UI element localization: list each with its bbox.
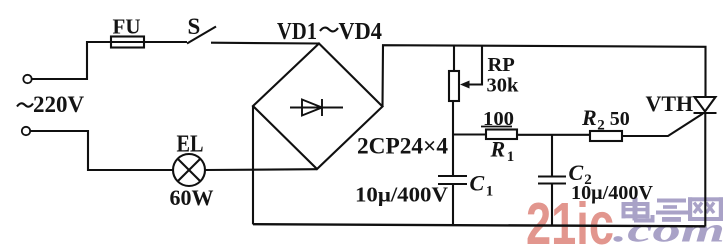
svg-text:S: S — [188, 14, 201, 39]
svg-text:FU: FU — [113, 15, 141, 39]
svg-text:VD4: VD4 — [339, 19, 383, 45]
wire R1 to R2 — [517, 134, 590, 136]
thyristor VTH — [694, 97, 717, 226]
label tilde — [320, 28, 338, 32]
node wire RP to R1 — [453, 133, 486, 135]
svg-text:30k: 30k — [487, 75, 520, 97]
svg-text:2CP24×4: 2CP24×4 — [357, 134, 449, 159]
RP wiper arrow — [460, 45, 482, 89]
svg-text:RP: RP — [488, 54, 515, 76]
svg-text:.com: .com — [613, 211, 725, 245]
bottom rail — [253, 224, 706, 226]
svg-text:VTH: VTH — [646, 91, 694, 116]
capacitor C1 — [438, 135, 467, 226]
terminal input 1 — [23, 75, 31, 83]
wire terminal1 to switch — [32, 42, 187, 79]
bridge rectifier VD1~VD4 — [253, 44, 383, 170]
lamp EL — [173, 154, 205, 186]
svg-text:R2 50: R2 50 — [581, 105, 630, 134]
svg-text:60W: 60W — [170, 185, 214, 210]
svg-text:220V: 220V — [33, 92, 85, 117]
wire bridge left vertex down — [252, 106, 254, 224]
label 100 underline — [481, 126, 512, 128]
label tilde of 220V — [17, 103, 33, 106]
fuse FU — [111, 37, 144, 48]
wire lamp to bridge bottom vertex — [205, 168, 317, 171]
diode symbol inside bridge — [290, 99, 343, 116]
switch S blade — [187, 27, 216, 44]
wire terminal2 to lamp — [30, 131, 173, 170]
wire S to bridge top — [211, 42, 319, 45]
terminal input 2 — [22, 127, 30, 135]
svg-text:10μ/400V: 10μ/400V — [355, 183, 448, 207]
wire R2 to VTH gate — [622, 114, 703, 137]
potentiometer RP — [449, 45, 459, 135]
resistor R1 — [486, 130, 517, 140]
capacitor C2 — [538, 135, 566, 226]
wire bridge right vertex to top rail and down to VTH — [383, 45, 706, 106]
watermark dian zi wang — [622, 197, 724, 222]
resistor R2 — [590, 131, 622, 141]
svg-text:VD1: VD1 — [277, 19, 317, 45]
svg-text:10μ/400V: 10μ/400V — [571, 183, 653, 204]
svg-text:EL: EL — [177, 132, 204, 158]
